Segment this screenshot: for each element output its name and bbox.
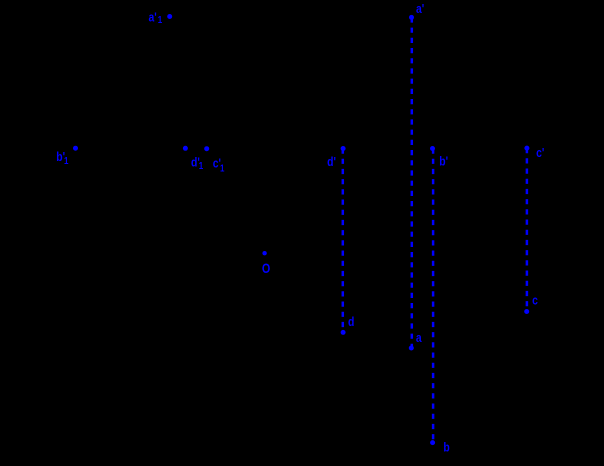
node a [409,331,422,351]
wire projection line d'-d [342,149,345,333]
node b [430,440,450,455]
node d' [327,146,346,169]
svg-text:a': a' [149,10,157,24]
svg-text:1: 1 [199,160,203,171]
node b'1 [56,146,78,166]
node a'1 [149,10,173,25]
svg-text:O: O [262,261,270,276]
svg-text:b': b' [439,154,448,168]
node c' [524,146,544,161]
svg-text:c: c [532,294,538,308]
svg-text:d': d' [327,155,336,169]
node a' [409,2,424,20]
svg-text:1: 1 [64,155,68,166]
svg-text:c': c' [536,146,544,160]
wire projection line a'-a [411,17,414,348]
wire projection line b'-b [432,149,435,443]
svg-text:a': a' [416,2,424,16]
svg-text:b: b [443,441,449,455]
node d'1 [183,146,203,172]
node c [524,294,538,314]
node c'1 [204,146,224,173]
node b' [430,146,448,169]
svg-text:a: a [416,331,422,345]
svg-text:1: 1 [220,163,224,174]
node d [341,315,355,335]
svg-text:1: 1 [158,14,162,25]
wire projection line c'-c [526,148,529,311]
node O origin [262,251,270,276]
svg-text:d: d [348,315,354,329]
